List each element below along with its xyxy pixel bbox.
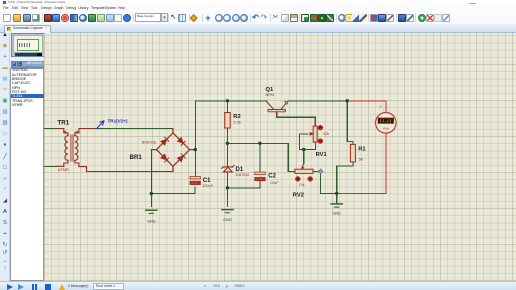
svg-text:RV1: RV1 xyxy=(316,152,328,158)
junction node BR1 DC+ rail xyxy=(194,148,197,151)
voltmeter VM1 (Volts) xyxy=(376,113,397,134)
junction node R2/D1/mid-rail xyxy=(226,142,229,145)
wire RV1 node down to RV2 wiper xyxy=(303,150,305,164)
svg-text:XFMR: XFMR xyxy=(58,167,69,172)
wire D1 node to ground 2 xyxy=(226,188,228,207)
svg-text:10k: 10k xyxy=(299,183,305,187)
svg-text:100uF: 100uF xyxy=(202,184,213,188)
wire BR1 DC- down to ground rail xyxy=(150,150,152,194)
voltage probe TR1(V2+) xyxy=(97,121,104,129)
wire red output rail to voltmeter + xyxy=(347,101,386,112)
resistor R2 2.2k xyxy=(225,113,231,129)
wire primary top lead to off-screen source xyxy=(44,128,56,130)
bridge diode D-bottomleft xyxy=(161,154,169,162)
svg-text:TR1: TR1 xyxy=(58,120,70,127)
wire D1 anode rail to C2 negative xyxy=(227,181,260,188)
bridge rectifier BR1 xyxy=(151,129,195,172)
svg-text:+: + xyxy=(379,104,382,109)
junction node RV1 wiper/RV2 xyxy=(302,148,305,151)
svg-text:GND: GND xyxy=(332,211,341,215)
junction node BR1 DC-/ground rail xyxy=(150,192,153,195)
junction node R1 branch on output rail xyxy=(346,99,349,102)
potentiometer RV1 50k xyxy=(310,117,317,142)
svg-text:10uF: 10uF xyxy=(270,181,279,185)
wire RV1 wiper tied to RV1 terminal 2 xyxy=(299,134,315,150)
zener diode D1 1N4753A xyxy=(222,165,234,172)
wire ground rail to C1 negative xyxy=(151,187,195,193)
svg-text:-: - xyxy=(380,136,382,141)
wire RV2 right terminal stub xyxy=(313,170,318,172)
wire RV2 terminal 2 down to ground rail xyxy=(321,171,337,193)
svg-text:GND: GND xyxy=(147,219,156,223)
wire BR1 DC+ rail up to top rail / down to C1+ xyxy=(194,101,196,177)
wire ground rail stem to ground 3 xyxy=(336,193,338,203)
svg-text:RV2: RV2 xyxy=(293,192,304,198)
RV2 adjust button left xyxy=(295,177,300,182)
ground 2 xyxy=(222,210,233,213)
wire ground rail stem to ground 1 xyxy=(150,194,152,207)
svg-text:TR1(V2+): TR1(V2+) xyxy=(108,119,129,124)
svg-text:5k: 5k xyxy=(359,157,363,162)
wire mid rail R2/D1 node to RV2 left xyxy=(227,142,288,144)
transformer TR1 xyxy=(56,129,93,172)
wire Q1 base to RV1 terminal 1 xyxy=(277,112,316,127)
transistor Q1 NPN xyxy=(266,101,288,114)
junction node R1/ground rail xyxy=(335,192,338,195)
voltmeter display digits xyxy=(380,120,390,123)
RV2 adjust button right xyxy=(308,177,313,182)
wire TR1 secondary top to BR1 AC+ (node TR1(V2+)) xyxy=(93,128,173,130)
capacitor C2 (electrolytic 10uF) xyxy=(255,172,265,181)
svg-text:BRIDGE: BRIDGE xyxy=(142,140,157,144)
wire top rail left segment to Q1 collector xyxy=(195,100,266,102)
svg-text:R1: R1 xyxy=(358,147,366,153)
svg-text:Volts: Volts xyxy=(383,127,390,131)
wire red ground rail to voltmeter - xyxy=(337,134,386,194)
wire R1 bottom to ground rail node xyxy=(337,162,353,193)
wire Q1 emitter to R1 branch node xyxy=(288,100,347,102)
junction node R2-top on output rail xyxy=(226,99,229,102)
svg-text:50k: 50k xyxy=(323,132,329,136)
svg-text:BR1: BR1 xyxy=(130,154,143,161)
ground 3 xyxy=(331,204,342,207)
svg-text:2.2k: 2.2k xyxy=(233,120,241,125)
wire D1 cathode lead xyxy=(226,143,228,166)
junction node D1-anode/C2- xyxy=(226,186,229,189)
wire mid rail down to RV2 terminal 1 xyxy=(288,143,295,171)
wire C2 positive lead xyxy=(259,143,261,172)
wire RV1 bottom lead xyxy=(314,142,316,150)
junction node C2+ on mid rail xyxy=(258,142,261,145)
wire R2 bottom lead xyxy=(226,128,228,143)
bridge diode D-topleft xyxy=(161,137,169,145)
RV1 adjust button down xyxy=(318,139,323,144)
svg-text:C2: C2 xyxy=(268,174,276,180)
node marker (dangling pin diamond) at RV2 terminal 2 xyxy=(318,169,323,174)
wire primary bottom lead to off-screen source xyxy=(44,165,56,167)
capacitor C1 (electrolytic 100uF) xyxy=(190,177,200,185)
ground 1 xyxy=(146,210,157,213)
bridge diode D-bottomright xyxy=(178,154,186,162)
svg-text:NPN: NPN xyxy=(266,92,275,97)
bridge diode D-topright xyxy=(178,138,186,146)
potentiometer RV2 10k xyxy=(295,163,313,173)
wire output node to R1 top xyxy=(347,101,353,145)
wire TR1 secondary bottom to BR1 AC- xyxy=(87,171,174,173)
wire D1 anode lead xyxy=(226,172,228,188)
wire R2 top lead xyxy=(226,101,228,113)
svg-text:1N4753A: 1N4753A xyxy=(235,173,250,177)
svg-text:GND: GND xyxy=(223,218,232,222)
svg-text:C1: C1 xyxy=(203,178,211,184)
resistor R1 5k xyxy=(350,144,355,162)
RV1 adjust button up xyxy=(318,125,323,130)
